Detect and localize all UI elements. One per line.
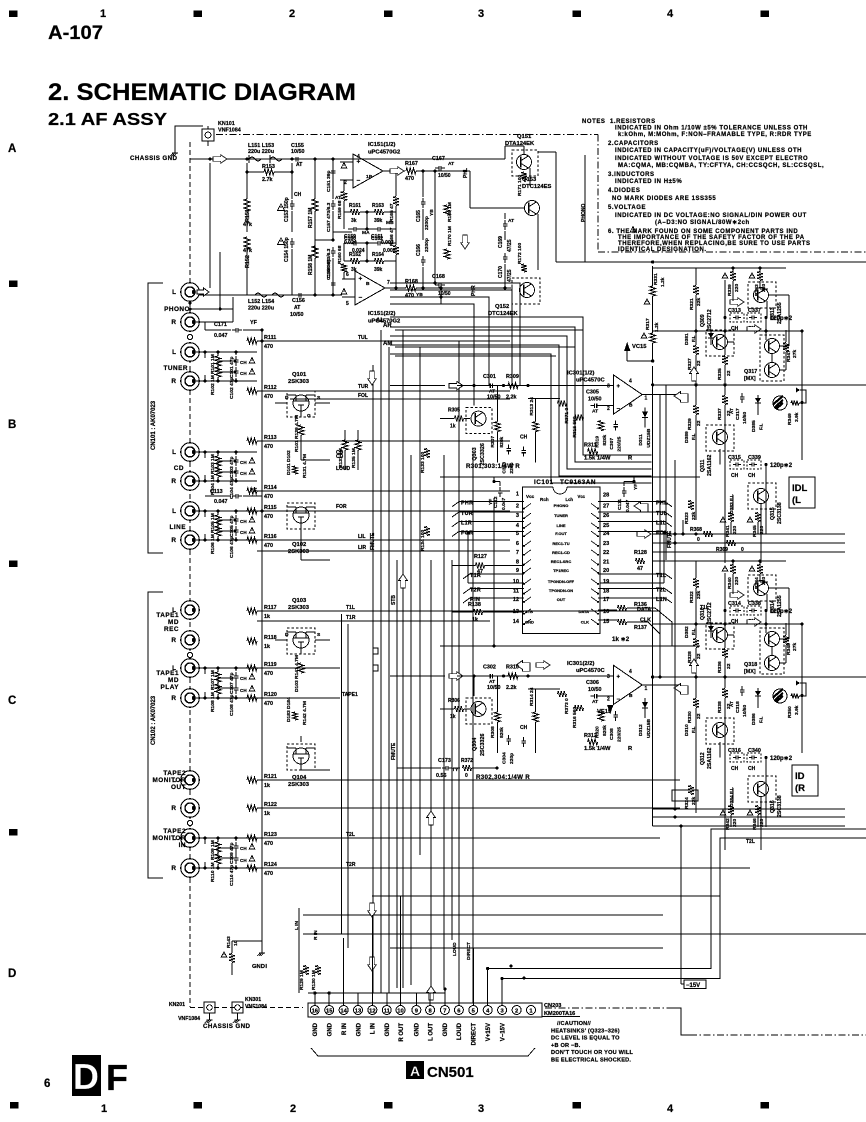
svg-text:0.047: 0.047 xyxy=(214,333,228,339)
svg-text:IN: IN xyxy=(179,842,186,849)
svg-text:F.L: F.L xyxy=(691,628,696,635)
jack TUNER L/R xyxy=(181,343,200,362)
svg-text:PHR: PHR xyxy=(471,285,477,296)
wire top right rails xyxy=(585,261,866,263)
dots bottom buses xyxy=(509,964,512,967)
svg-text:C105 47p: C105 47p xyxy=(229,516,235,537)
svg-text:R335: R335 xyxy=(717,368,723,380)
wire long bus y934 xyxy=(303,933,866,935)
svg-text:D312: D312 xyxy=(638,724,644,736)
svg-text:R163: R163 xyxy=(372,203,384,209)
svg-text:Q318: Q318 xyxy=(744,662,757,668)
connector CN501 pins xyxy=(310,1006,319,1015)
svg-text:2. SCHEMATIC DIAGRAM: 2. SCHEMATIC DIAGRAM xyxy=(48,79,356,106)
transistor Q303 2SC3326 xyxy=(466,408,492,434)
resistor R322 22k xyxy=(693,579,699,588)
svg-text:R118: R118 xyxy=(264,635,277,641)
svg-text:470: 470 xyxy=(264,671,273,677)
power amp wires xyxy=(695,563,697,578)
svg-text:5.VOLTAGE: 5.VOLTAGE xyxy=(608,205,646,211)
wire TAPE1 R120 xyxy=(257,697,340,699)
transistor Q316 2SC3138 xyxy=(748,776,776,802)
wire L IN drop xyxy=(298,908,300,993)
svg-text:C: C xyxy=(8,695,16,707)
svg-text:D311: D311 xyxy=(638,434,644,446)
svg-text:TAPE1: TAPE1 xyxy=(156,670,179,677)
svg-text:AT: AT xyxy=(448,161,454,167)
svg-text:AT: AT xyxy=(296,162,302,168)
svg-text:2SC2712: 2SC2712 xyxy=(707,602,713,624)
svg-text:MONITOR: MONITOR xyxy=(152,777,186,784)
svg-text:8: 8 xyxy=(516,560,519,566)
diode D382 xyxy=(710,623,712,638)
svg-text:GND: GND xyxy=(385,1022,391,1036)
resistor R170 1M xyxy=(444,249,450,259)
svg-text:14: 14 xyxy=(340,1008,347,1014)
svg-text:R306: R306 xyxy=(448,698,460,704)
resistor R143 10 xyxy=(221,952,226,957)
resistor R116 470 xyxy=(247,537,257,543)
svg-text:VNF1084: VNF1084 xyxy=(178,1016,200,1022)
svg-text:C306: C306 xyxy=(586,680,599,686)
svg-text:1: 1 xyxy=(645,396,648,402)
jack TAPE2 IN L/R xyxy=(181,829,200,848)
svg-text:R168: R168 xyxy=(405,279,418,285)
wire mid join xyxy=(315,239,333,241)
svg-text:470: 470 xyxy=(264,543,273,549)
svg-text:R128: R128 xyxy=(634,550,647,556)
svg-text:1: 1 xyxy=(645,686,648,692)
svg-text:CH: CH xyxy=(294,192,302,198)
arrow input IC301(2/2) xyxy=(449,672,463,681)
wire AM bus xyxy=(395,346,575,348)
wire long bus y896 xyxy=(372,895,720,897)
svg-text:R IN: R IN xyxy=(313,930,319,940)
resistor R345 220 xyxy=(747,517,752,522)
wire TAPE1 R119 xyxy=(257,667,340,669)
resistor R138 1k xyxy=(474,609,483,615)
svg-text:2SC3326: 2SC3326 xyxy=(480,734,486,756)
svg-text:R113: R113 xyxy=(264,435,277,441)
svg-text:R IN: R IN xyxy=(342,1023,348,1035)
capacitor C167 10/50 xyxy=(435,167,439,169)
svg-text:L: L xyxy=(172,349,176,356)
svg-text:D: D xyxy=(285,395,289,401)
svg-text:1B: 1B xyxy=(366,174,373,180)
svg-text:R164: R164 xyxy=(372,252,384,258)
svg-text:R330: R330 xyxy=(687,711,693,723)
svg-text:47/25: 47/25 xyxy=(507,239,513,252)
svg-text:1k: 1k xyxy=(264,644,270,650)
transistor Q304 2SC3326 xyxy=(466,698,492,724)
svg-text:1k: 1k xyxy=(264,811,270,817)
resistor R137 xyxy=(618,619,627,625)
wire rail y331 upper xyxy=(653,330,802,332)
svg-text:7: 7 xyxy=(387,280,390,286)
capacitor C301 xyxy=(486,385,490,387)
svg-text:120p∗2: 120p∗2 xyxy=(770,463,793,469)
capacitor C170 47/25 xyxy=(504,253,506,257)
svg-text:F.L: F.L xyxy=(691,433,696,440)
capacitor C162 0.002 xyxy=(374,242,378,244)
svg-text:10/50: 10/50 xyxy=(588,397,602,403)
svg-text:CH: CH xyxy=(240,360,247,365)
svg-text:470: 470 xyxy=(264,514,273,520)
svg-text:R316 560: R316 560 xyxy=(572,707,578,728)
svg-text:820k: 820k xyxy=(499,727,505,738)
svg-text:CHASSIS GND: CHASSIS GND xyxy=(130,155,178,162)
lower rail L152 L154 C156 xyxy=(190,294,342,296)
svg-text:D383 F.L: D383 F.L xyxy=(729,494,735,514)
svg-text:C101 47p: C101 47p xyxy=(229,357,235,378)
line input cluster R105 R106 C105 C106 xyxy=(196,510,205,512)
transistor Q309 2SC2712 xyxy=(706,330,734,356)
svg-text:D101 D102: D101 D102 xyxy=(286,450,292,475)
svg-text:KN101: KN101 xyxy=(218,121,235,127)
main rail upper xyxy=(653,384,866,386)
svg-text:CH: CH xyxy=(748,766,756,772)
connector CN501 brace xyxy=(311,1048,535,1056)
capacitor CH xyxy=(523,737,525,741)
output wire xyxy=(642,684,680,686)
svg-text:220: 220 xyxy=(734,577,740,585)
svg-text:R301,303:1/4W R: R301,303:1/4W R xyxy=(466,463,520,470)
svg-text:NOTES: NOTES xyxy=(582,119,605,125)
svg-text:k:kOhm, M:MOhm, F:NON–FRAMABLE: k:kOhm, M:MOhm, F:NON–FRAMABLE TYPE, R:R… xyxy=(618,132,812,138)
svg-text:D385: D385 xyxy=(751,420,757,432)
svg-text:B: B xyxy=(629,693,633,699)
svg-text:0.56: 0.56 xyxy=(436,773,447,779)
svg-text:L IN: L IN xyxy=(371,1023,377,1034)
svg-text:VE15: VE15 xyxy=(597,709,612,715)
svg-text:R373 0: R373 0 xyxy=(564,698,570,714)
svg-text:L: L xyxy=(172,289,176,296)
svg-text:R310: R310 xyxy=(506,665,519,671)
resistor R347 27k xyxy=(783,343,789,352)
svg-text:1k: 1k xyxy=(450,424,456,430)
svg-text:C153 150p: C153 150p xyxy=(284,197,290,222)
svg-text:F.L: F.L xyxy=(759,423,764,430)
wire FOL xyxy=(290,398,510,400)
svg-text:C173: C173 xyxy=(438,758,451,764)
svg-text:−: − xyxy=(617,407,621,413)
svg-text:R135 1M: R135 1M xyxy=(351,448,357,468)
svg-text:CH: CH xyxy=(520,435,528,441)
svg-text:D384 F.L: D384 F.L xyxy=(729,787,735,807)
svg-text:C308: C308 xyxy=(609,728,615,740)
svg-text:R: R xyxy=(171,319,176,326)
svg-text:470: 470 xyxy=(264,394,273,400)
bus corner jogs xyxy=(373,648,378,654)
resistor R317 1.2k xyxy=(650,333,656,343)
svg-text:C307: C307 xyxy=(609,438,615,450)
jack TAPE2 OUT L/R xyxy=(181,771,200,790)
svg-text:GND I: GND I xyxy=(252,964,267,970)
svg-text:uPC4570C: uPC4570C xyxy=(576,668,605,674)
tuner input cluster R101 R102 C101 C102 xyxy=(196,351,205,353)
svg-text:+: + xyxy=(617,675,621,681)
resistor R157 1M xyxy=(312,199,318,211)
svg-text:CN203: CN203 xyxy=(544,1003,561,1009)
svg-text:+: + xyxy=(617,384,621,390)
resistor R350 3.9k xyxy=(791,693,799,698)
svg-text:R342: R342 xyxy=(725,818,731,830)
transistor Q310 2SC2712 xyxy=(706,623,734,649)
svg-text:22: 22 xyxy=(696,420,702,426)
svg-text:F.L: F.L xyxy=(691,726,696,733)
arrow PHL left xyxy=(634,502,648,513)
svg-text:10: 10 xyxy=(397,1008,403,1014)
svg-text:IC301(2/2): IC301(2/2) xyxy=(567,661,594,667)
resistor R313 24 xyxy=(533,422,539,432)
svg-text:CLK: CLK xyxy=(640,618,651,624)
svg-text:R165 47: R165 47 xyxy=(389,203,395,222)
feedback resistors xyxy=(558,691,567,697)
resistor R342 220 xyxy=(720,810,725,815)
svg-text:R302,304:1/4W R: R302,304:1/4W R xyxy=(476,774,530,781)
top rail xyxy=(653,267,786,269)
chassis boundary right of notes xyxy=(598,251,866,253)
svg-text:470: 470 xyxy=(264,841,273,847)
svg-text:KN201: KN201 xyxy=(169,1002,185,1008)
jack TAPE1 REC L/R xyxy=(181,601,200,620)
svg-text:R160 68: R160 68 xyxy=(337,245,343,264)
arrow down AR AM xyxy=(368,371,377,385)
svg-text:R171 100: R171 100 xyxy=(517,175,523,196)
IDL L box xyxy=(789,477,815,508)
svg-text:220: 220 xyxy=(759,526,765,534)
capacitor C168 10/50 xyxy=(435,284,439,286)
svg-text:9: 9 xyxy=(516,568,519,574)
svg-text:DTC124EK: DTC124EK xyxy=(488,311,518,317)
svg-text:FMUTE: FMUTE xyxy=(370,532,376,550)
svg-text:3: 3 xyxy=(478,8,484,20)
svg-text:TAPE1: TAPE1 xyxy=(156,612,179,619)
svg-text:MD: MD xyxy=(168,619,179,626)
svg-text:0.047: 0.047 xyxy=(214,499,228,505)
diode D312 UDZ15B xyxy=(644,698,646,718)
svg-text:3.INDUCTORS: 3.INDUCTORS xyxy=(608,172,655,178)
svg-text:R130 1M: R130 1M xyxy=(311,970,317,990)
svg-text:11: 11 xyxy=(384,1008,391,1014)
wire R122 xyxy=(257,807,680,809)
svg-text:FMUTE: FMUTE xyxy=(391,742,397,760)
svg-text:470: 470 xyxy=(264,701,273,707)
svg-text:R107 1M: R107 1M xyxy=(210,670,216,690)
chassis boundary notes corner xyxy=(597,135,599,253)
svg-text:28: 28 xyxy=(603,492,609,498)
svg-text:D: D xyxy=(73,1056,99,1097)
resistor R307 820k xyxy=(494,422,500,432)
svg-text:PHL: PHL xyxy=(463,168,469,178)
svg-text:D389: D389 xyxy=(684,431,690,443)
svg-text:Q101: Q101 xyxy=(292,372,307,378)
svg-text:2SC3138: 2SC3138 xyxy=(777,502,783,524)
svg-text:1: 1 xyxy=(100,8,106,20)
arrow pair channel 2 xyxy=(516,661,530,672)
svg-text:1: 1 xyxy=(101,1103,107,1115)
resistor R368 0 xyxy=(704,531,713,537)
svg-text:4: 4 xyxy=(667,1103,674,1115)
svg-text:Q317: Q317 xyxy=(744,369,757,375)
svg-text:R336: R336 xyxy=(717,661,723,673)
svg-text:IC151(1/2): IC151(1/2) xyxy=(368,142,395,148)
wire DATA CLK diagonals xyxy=(655,608,672,646)
svg-text:−15V: −15V xyxy=(686,983,700,989)
svg-text:UDZ15B: UDZ15B xyxy=(646,719,652,738)
capacitor C165 2200p YB xyxy=(422,198,424,202)
svg-text:L152 L154: L152 L154 xyxy=(248,299,274,305)
svg-text:R112: R112 xyxy=(264,385,277,391)
svg-text:2SA1162: 2SA1162 xyxy=(707,748,713,769)
svg-text:10/50: 10/50 xyxy=(438,173,451,179)
svg-text:(L: (L xyxy=(792,495,801,506)
svg-text:TAPE1: TAPE1 xyxy=(342,692,358,698)
capacitor C160 0.024 xyxy=(350,242,354,244)
arrow down right of preamp xyxy=(461,235,470,249)
resistor R165 47 xyxy=(393,197,399,206)
svg-text:D381: D381 xyxy=(684,333,690,345)
wire phono upper out drop xyxy=(434,171,436,283)
svg-text:IC301(1/2): IC301(1/2) xyxy=(567,371,594,377)
svg-text:R: R xyxy=(171,637,176,644)
svg-text:R341: R341 xyxy=(725,525,731,537)
svg-text:R134 100: R134 100 xyxy=(420,530,426,551)
IC101 left rail xyxy=(458,503,460,605)
svg-text:PHONO: PHONO xyxy=(164,306,190,313)
svg-text:R111: R111 xyxy=(264,335,276,341)
svg-text:R166 47: R166 47 xyxy=(389,227,395,246)
wire T1L down route xyxy=(341,614,343,934)
svg-text:2: 2 xyxy=(607,697,610,703)
resistor R331 1.2k xyxy=(650,286,656,296)
svg-text:Q303: Q303 xyxy=(472,447,478,460)
capacitor C169 47/25 xyxy=(504,220,506,224)
svg-text:REC1-SRC: REC1-SRC xyxy=(551,559,572,564)
svg-text:22k: 22k xyxy=(696,591,702,599)
svg-text:R124: R124 xyxy=(264,862,277,868)
svg-text:5: 5 xyxy=(346,301,349,307)
svg-text:1.2k: 1.2k xyxy=(660,277,666,287)
svg-text:Lch: Lch xyxy=(566,497,574,502)
svg-text:C302: C302 xyxy=(483,665,496,671)
svg-text:GND: GND xyxy=(356,1022,362,1036)
resistor R162 3k xyxy=(351,258,360,264)
svg-text:TAPE2: TAPE2 xyxy=(163,828,186,835)
svg-text:470: 470 xyxy=(264,871,273,877)
svg-text:820k: 820k xyxy=(499,436,505,447)
wire AM extension xyxy=(395,355,556,357)
svg-text:R115: R115 xyxy=(264,505,277,511)
wire long bus y915 xyxy=(303,914,663,916)
svg-text:120p∗2: 120p∗2 xyxy=(770,756,793,762)
terminal KN101 xyxy=(175,126,203,150)
svg-text:CH: CH xyxy=(240,530,247,535)
svg-text:REC1-TU: REC1-TU xyxy=(552,541,569,546)
capacitor C308 220/25 xyxy=(615,711,617,715)
svg-text:DC LEVEL IS EQUAL TO: DC LEVEL IS EQUAL TO xyxy=(551,1036,620,1042)
svg-text:0: 0 xyxy=(465,773,468,779)
svg-text:TUNER: TUNER xyxy=(163,365,188,372)
svg-text:47k: 47k xyxy=(243,248,252,254)
svg-text:220u 220u: 220u 220u xyxy=(248,149,274,155)
svg-text:R158 1M: R158 1M xyxy=(308,255,314,275)
wire input line xyxy=(457,675,614,677)
wire LIR xyxy=(257,550,510,552)
svg-text:R: R xyxy=(171,378,176,385)
svg-text:AR: AR xyxy=(383,323,392,329)
svg-text:R: R xyxy=(171,537,176,544)
arrow VC15 xyxy=(624,342,630,351)
svg-text:R331: R331 xyxy=(653,273,659,285)
svg-text:470: 470 xyxy=(405,176,414,182)
transistor Q313 2SA1255 xyxy=(748,282,776,308)
wire T1L xyxy=(257,610,660,612)
svg-text:R167: R167 xyxy=(405,161,418,167)
wires FET column xyxy=(315,402,330,404)
resistor R309 2.2k xyxy=(508,383,518,389)
svg-text:VNF1084: VNF1084 xyxy=(218,128,241,134)
svg-text:27k: 27k xyxy=(792,643,798,651)
svg-text:R114: R114 xyxy=(264,485,277,491)
wire to IC301 ch2 input xyxy=(390,675,445,677)
resistor R152 47k xyxy=(244,237,250,249)
svg-text:C301: C301 xyxy=(483,374,496,380)
svg-text:Q310: Q310 xyxy=(700,607,706,620)
svg-text:LOUD: LOUD xyxy=(457,1022,463,1040)
diode D385 F.L xyxy=(757,395,759,415)
transistor Q312 2SA1162 xyxy=(706,718,734,744)
resistor R141 4.7M xyxy=(298,663,304,673)
svg-text:6: 6 xyxy=(44,1078,50,1090)
op-amp IC151(2/2) xyxy=(355,271,385,305)
svg-text:R340: R340 xyxy=(727,577,733,589)
svg-text:MD: MD xyxy=(168,677,179,684)
diode D381 xyxy=(710,330,712,345)
nested corner wires to right channel xyxy=(390,317,652,455)
svg-text:47/25: 47/25 xyxy=(507,269,513,282)
svg-text:2.2k: 2.2k xyxy=(506,395,517,401)
svg-text:220/25: 220/25 xyxy=(617,727,623,742)
svg-text:AT: AT xyxy=(294,305,300,311)
svg-text:10/50: 10/50 xyxy=(290,312,304,318)
chassis ground top xyxy=(174,150,176,153)
resistor R117 1k xyxy=(247,608,257,614)
svg-text:AM: AM xyxy=(383,341,392,347)
svg-text:47k: 47k xyxy=(243,222,252,228)
svg-text:R153: R153 xyxy=(262,164,275,170)
svg-text:LIL: LIL xyxy=(358,534,366,540)
resistor R163 39k xyxy=(375,209,384,215)
svg-text:C305: C305 xyxy=(586,390,599,396)
wire feed pins verticals xyxy=(314,993,316,1005)
transistor Q311 2SA1162 xyxy=(706,425,734,451)
svg-text:Q152: Q152 xyxy=(495,304,509,310)
svg-text:INDICATED IN DC VOLTAGE:NO SIG: INDICATED IN DC VOLTAGE:NO SIGNAL/DIN PO… xyxy=(615,213,807,219)
svg-text:R327: R327 xyxy=(687,358,693,370)
svg-text:47: 47 xyxy=(637,566,643,572)
svg-text:R162: R162 xyxy=(349,252,361,258)
svg-text:470: 470 xyxy=(264,344,273,350)
wire base xyxy=(440,708,454,710)
svg-text:CH: CH xyxy=(240,519,247,524)
svg-text:22: 22 xyxy=(726,370,732,376)
capacitor C151 39p xyxy=(332,167,334,171)
svg-text:F.L: F.L xyxy=(759,716,764,723)
resistor R328 22 xyxy=(693,639,699,648)
svg-text:ID: ID xyxy=(795,771,805,782)
resistor R172 100 xyxy=(521,264,527,272)
